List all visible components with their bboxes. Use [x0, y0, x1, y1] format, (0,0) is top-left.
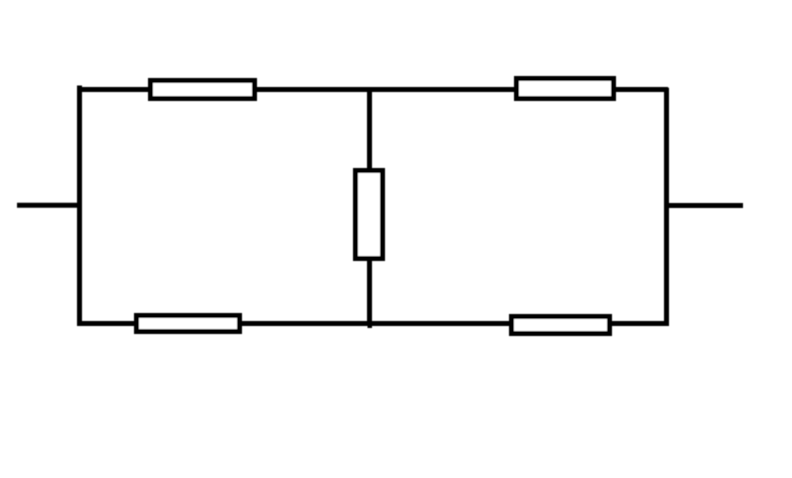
node: junction dot at bottom center [368, 324, 373, 328]
wire: middle vertical, bottom segment [367, 259, 372, 326]
wire: right output terminal stub [665, 203, 743, 208]
resistor R2 (top right) [517, 79, 614, 99]
resistor R4 (bottom right) [512, 317, 610, 334]
wire: top horizontal rail [77, 87, 668, 92]
resistor R1 (top left) [151, 81, 255, 99]
wire: bottom horizontal rail [77, 321, 669, 326]
resistor R5 (middle vertical) [356, 171, 383, 259]
wire: left vertical rail [77, 86, 82, 327]
wire: right vertical rail [664, 88, 669, 326]
wire: middle vertical, top segment [367, 88, 372, 170]
wire: left input terminal stub [17, 203, 82, 208]
resistor R3 (bottom left) [137, 316, 240, 332]
